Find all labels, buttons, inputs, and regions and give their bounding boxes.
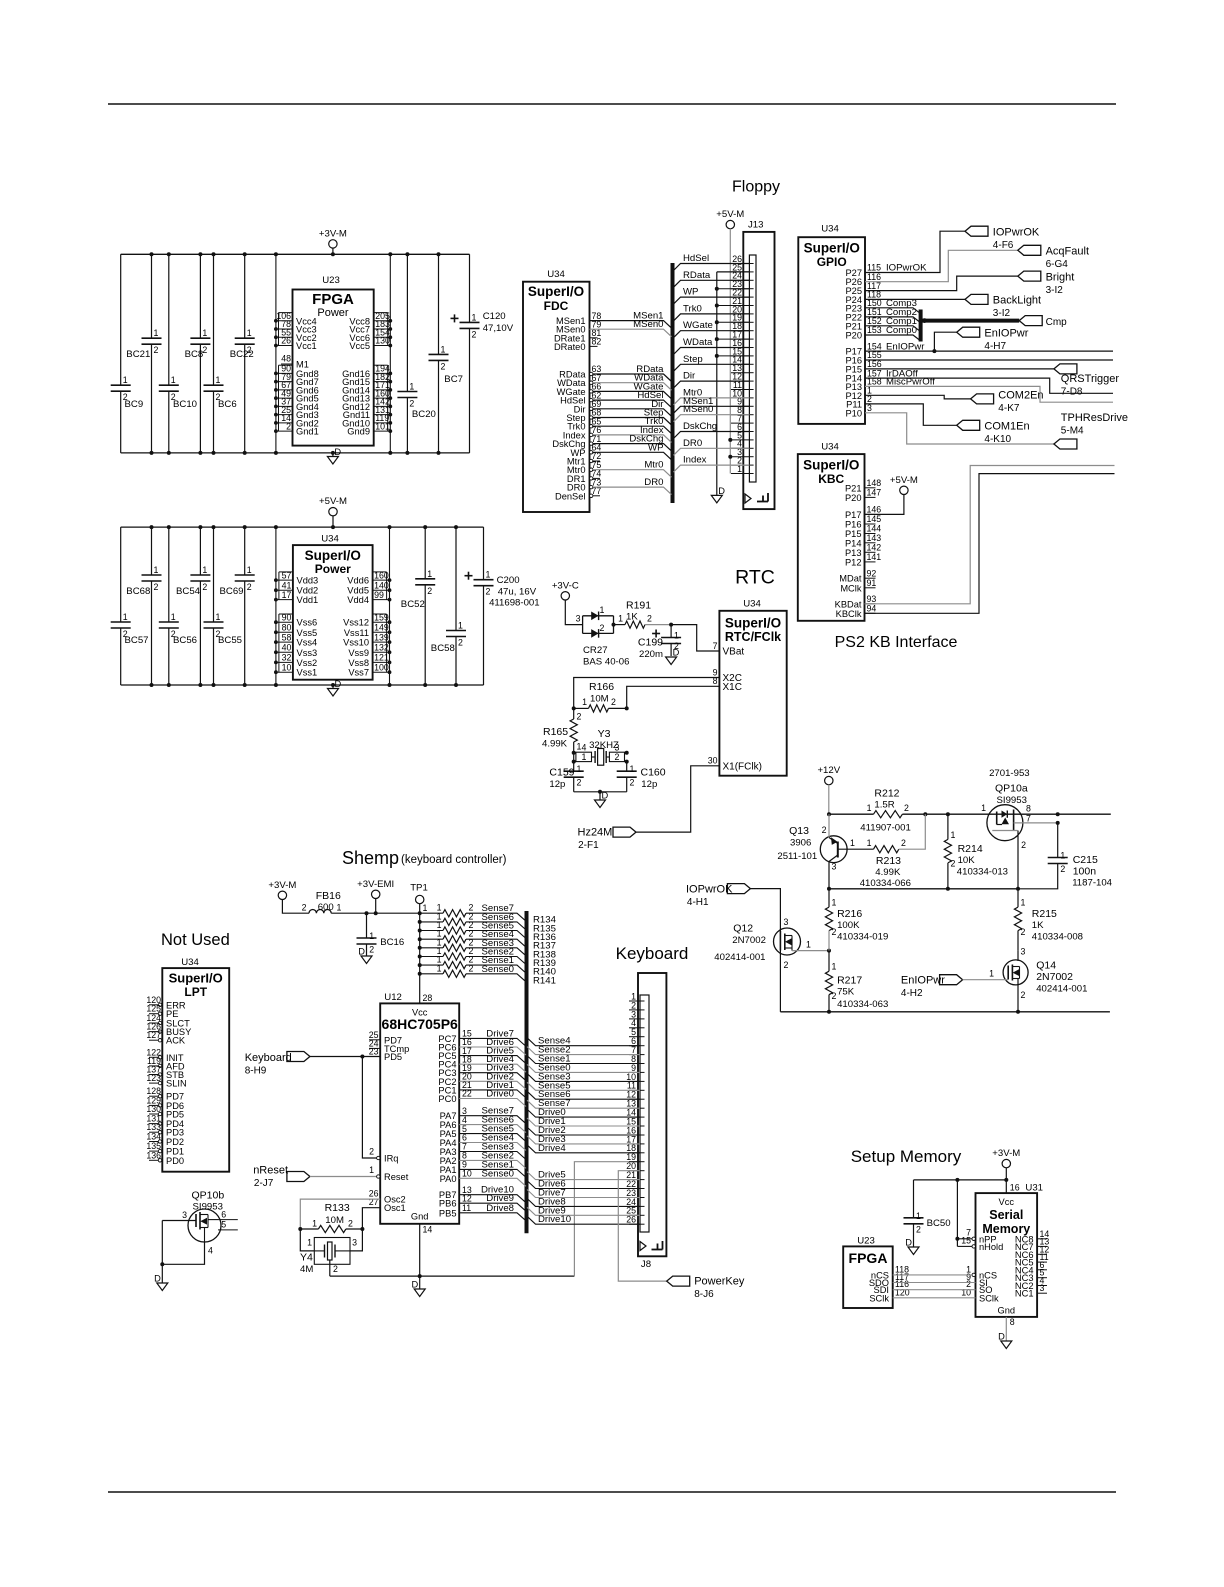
svg-text:QP10a: QP10a — [995, 783, 1028, 795]
wire power box right tie column — [389, 527, 391, 685]
svg-text:2: 2 — [615, 752, 620, 762]
svg-text:FB16: FB16 — [316, 890, 341, 902]
svg-text:1: 1 — [307, 1238, 312, 1248]
wire P25 to Bright flag — [865, 276, 1018, 291]
svg-text:4-H7: 4-H7 — [984, 341, 1006, 352]
svg-text:10M: 10M — [590, 694, 609, 705]
svg-text:12p: 12p — [641, 779, 657, 790]
flag Bright 3-I2 — [1018, 271, 1041, 281]
svg-text:411907-001: 411907-001 — [860, 823, 911, 834]
wire bus to J13 pin 12 Dir — [674, 381, 750, 388]
wire bus to J13 pin 16 WData — [674, 348, 750, 355]
wire FDC WP to bus — [593, 452, 672, 460]
svg-text:2: 2 — [369, 1147, 374, 1157]
svg-text:8: 8 — [1010, 1317, 1015, 1327]
svg-text:Vss4: Vss4 — [297, 638, 318, 648]
capacitor C215 100n 1187-104 — [1057, 823, 1059, 858]
svg-text:Power: Power — [315, 562, 351, 576]
svg-text:SuperI/O: SuperI/O — [804, 241, 860, 256]
svg-text:GPIO: GPIO — [817, 255, 847, 269]
svg-text:2: 2 — [611, 697, 616, 707]
svg-text:12: 12 — [462, 1193, 472, 1203]
wire bottom border rule — [108, 1491, 1116, 1493]
svg-text:D: D — [334, 447, 341, 457]
svg-text:P13: P13 — [845, 548, 862, 558]
svg-text:+3V-M: +3V-M — [992, 1148, 1020, 1159]
svg-text:8-H9: 8-H9 — [245, 1066, 267, 1077]
svg-text:WGate: WGate — [683, 320, 713, 331]
wire +5V-M top bus — [121, 526, 484, 528]
resistor R136 sense pullup Sense5 — [418, 929, 422, 933]
svg-text:C159: C159 — [549, 767, 574, 779]
svg-text:P10: P10 — [845, 408, 862, 418]
wire bus to J8 pin 17 Drive3 — [527, 1136, 640, 1144]
pin U12 Reset number 1 with bubble — [377, 1175, 380, 1178]
svg-text:R133: R133 — [325, 1202, 350, 1214]
node +5V-M power symbol — [329, 508, 337, 516]
crystal Y4 4M — [300, 1229, 314, 1251]
svg-text:10K: 10K — [958, 855, 976, 866]
wire FDC Dir to bus — [593, 409, 672, 417]
svg-text:1: 1 — [850, 838, 855, 848]
svg-text:139: 139 — [374, 632, 389, 642]
svg-text:1: 1 — [437, 963, 442, 973]
svg-text:BC8: BC8 — [185, 349, 204, 360]
svg-text:J8: J8 — [641, 1259, 651, 1270]
svg-text:WP: WP — [683, 287, 698, 298]
svg-text:100: 100 — [374, 662, 389, 672]
pins U12 PD7 TCmp PD5 numbers 25 24 23 — [369, 1039, 380, 1041]
svg-text:1: 1 — [951, 830, 956, 840]
svg-text:BC7: BC7 — [444, 374, 463, 385]
svg-text:3: 3 — [1021, 947, 1026, 957]
capacitor BC20 — [406, 254, 408, 391]
wire bus to J8 pin 22 Drive6 — [527, 1181, 640, 1189]
svg-text:Keyboard: Keyboard — [245, 1052, 292, 1064]
svg-text:SLIN: SLIN — [166, 1079, 187, 1089]
svg-text:7: 7 — [1026, 814, 1031, 824]
svg-text:Power: Power — [317, 307, 349, 319]
svg-text:2N7002: 2N7002 — [732, 935, 766, 946]
svg-text:U34: U34 — [821, 442, 839, 453]
pins U23 Vcc4-Vcc1 numbers 106 78 55 26 — [279, 312, 293, 314]
wire bus to J8 pin 8 Sense1 — [527, 1056, 640, 1064]
pins U34 LPT with bubbles — [149, 1004, 158, 1006]
svg-text:DR0: DR0 — [644, 477, 663, 488]
svg-text:130: 130 — [375, 336, 390, 346]
svg-text:1: 1 — [312, 1219, 317, 1229]
svg-text:Vcc: Vcc — [999, 1197, 1015, 1207]
svg-text:BC50: BC50 — [927, 1218, 951, 1229]
pins U34 Vdd3-Vdd1 numbers 57 41 17 — [279, 571, 293, 573]
svg-text:FPGA: FPGA — [849, 1250, 888, 1266]
svg-text:4-H2: 4-H2 — [901, 988, 923, 999]
svg-text:2: 2 — [577, 712, 582, 722]
svg-text:1: 1 — [472, 312, 477, 322]
capacitor BC54 — [199, 527, 201, 575]
wire FDC Index to bus — [593, 435, 672, 443]
svg-text:120: 120 — [895, 1287, 910, 1297]
svg-text:Vss10: Vss10 — [343, 638, 369, 648]
wire bus to J13 pin 2 Index — [674, 465, 750, 472]
wire FPGA to Serial Memory nets — [893, 1274, 972, 1276]
svg-text:C200: C200 — [497, 575, 520, 586]
capacitor BC58 — [455, 527, 457, 630]
svg-text:127: 127 — [146, 1030, 161, 1040]
svg-text:VBat: VBat — [723, 647, 745, 658]
svg-text:1: 1 — [832, 962, 837, 972]
svg-text:32KHZ: 32KHZ — [589, 740, 619, 751]
diode CR27 BAS 40-06 dual — [582, 616, 584, 634]
flag Cmp — [1019, 316, 1042, 326]
svg-text:BackLight: BackLight — [993, 295, 1041, 307]
flag PowerKey 8-J6 — [667, 1276, 690, 1286]
svg-text:6-G4: 6-G4 — [1046, 259, 1069, 270]
svg-text:D: D — [673, 648, 680, 658]
svg-text:Drive10: Drive10 — [538, 1214, 571, 1225]
svg-text:PC0: PC0 — [438, 1094, 456, 1104]
svg-text:Gnd9: Gnd9 — [347, 427, 370, 437]
svg-text:Vss5: Vss5 — [297, 628, 318, 638]
svg-text:U34: U34 — [821, 224, 839, 235]
svg-text:8: 8 — [1026, 804, 1031, 814]
svg-text:IRq: IRq — [384, 1154, 398, 1164]
svg-text:R166: R166 — [589, 681, 614, 693]
wire mid rail — [829, 888, 1018, 890]
svg-text:SI9953: SI9953 — [997, 795, 1027, 806]
svg-text:Q14: Q14 — [1036, 960, 1056, 972]
svg-text:4-K10: 4-K10 — [984, 434, 1011, 445]
resistor R165 4.99K — [573, 708, 575, 719]
svg-text:SuperI/O: SuperI/O — [528, 284, 584, 299]
svg-text:Vdd1: Vdd1 — [297, 595, 319, 605]
svg-text:PB5: PB5 — [439, 1208, 457, 1218]
svg-text:Serial: Serial — [989, 1208, 1023, 1222]
svg-text:2-F1: 2-F1 — [578, 840, 599, 851]
svg-text:P20: P20 — [845, 331, 862, 341]
svg-text:QRSTrigger: QRSTrigger — [1061, 373, 1120, 385]
IC U23 FPGA Power box — [293, 290, 374, 446]
svg-text:Vss1: Vss1 — [297, 668, 318, 678]
wire bus to J13 pin 10 Mtr0 — [674, 398, 750, 405]
svg-text:FDC: FDC — [544, 299, 569, 313]
wire P11 to COM1En flag — [865, 404, 957, 425]
flag BackLight 3-I2 — [965, 294, 988, 304]
svg-text:+5V-M: +5V-M — [890, 475, 918, 486]
wire branch to EnIOPwr flag — [934, 332, 956, 351]
svg-text:57: 57 — [282, 570, 292, 580]
svg-text:C120: C120 — [483, 311, 506, 322]
svg-text:1: 1 — [369, 931, 374, 941]
svg-text:C199: C199 — [638, 637, 663, 649]
svg-text:BC54: BC54 — [176, 586, 201, 597]
wire X1C to crystal right node — [627, 686, 720, 708]
node +3V-M power symbol at Shemp — [278, 891, 286, 899]
flag COM2En 4-K7 — [971, 394, 994, 404]
node +3V-M power symbol — [329, 240, 337, 248]
svg-text:136: 136 — [146, 1150, 161, 1160]
flag COM1En 4-K10 — [957, 420, 980, 430]
svg-text:BC57: BC57 — [125, 635, 149, 646]
svg-text:2: 2 — [286, 421, 291, 431]
svg-text:BC10: BC10 — [173, 399, 197, 410]
svg-text:2: 2 — [441, 361, 446, 371]
svg-text:+12V: +12V — [817, 765, 840, 776]
svg-text:D: D — [154, 1274, 161, 1284]
svg-text:Drive4: Drive4 — [538, 1143, 566, 1154]
svg-text:1: 1 — [981, 803, 986, 813]
svg-text:1: 1 — [1060, 851, 1065, 861]
svg-text:IOPwrOK: IOPwrOK — [993, 227, 1040, 239]
svg-text:Gnd: Gnd — [411, 1212, 429, 1222]
capacitor BC6 — [213, 254, 215, 385]
wire FDC Trk0 to bus — [593, 426, 672, 434]
svg-text:D: D — [602, 791, 609, 801]
capacitor BC8 — [199, 254, 201, 338]
svg-text:Step: Step — [683, 354, 703, 365]
svg-text:U23: U23 — [857, 1236, 875, 1247]
svg-text:Reset: Reset — [384, 1172, 409, 1182]
svg-text:MDat: MDat — [839, 574, 862, 584]
resistor R133 10M — [300, 1228, 318, 1230]
svg-text:1: 1 — [486, 570, 491, 580]
wire P16 net to page right — [865, 359, 1113, 361]
svg-text:SuperI/O: SuperI/O — [169, 971, 223, 986]
wire bus to J8 pin 13 Sense7 — [527, 1100, 640, 1108]
svg-text:U34: U34 — [743, 599, 761, 610]
svg-text:NC1: NC1 — [1015, 1289, 1034, 1299]
svg-text:DskChg: DskChg — [683, 421, 717, 432]
svg-text:BC52: BC52 — [401, 599, 425, 610]
wire ground bottom rail of power section — [121, 684, 484, 686]
svg-text:QP10b: QP10b — [192, 1190, 225, 1202]
svg-text:nReset: nReset — [253, 1165, 288, 1177]
svg-text:1: 1 — [171, 375, 176, 385]
svg-text:1: 1 — [577, 764, 582, 774]
ground D symbol at C199 — [666, 657, 677, 665]
svg-text:1: 1 — [154, 565, 159, 575]
capacitor C200 47u 16V 411698-001 — [483, 527, 485, 580]
svg-text:+3V-M: +3V-M — [268, 880, 296, 891]
svg-text:3-I2: 3-I2 — [993, 308, 1011, 319]
svg-text:1: 1 — [202, 565, 207, 575]
pin U23 M1 number 48 — [281, 363, 293, 365]
svg-text:99: 99 — [374, 590, 384, 600]
svg-text:2: 2 — [154, 582, 159, 592]
pin U12 Gnd number 14 and ground symbol — [419, 1224, 421, 1276]
svg-text:R213: R213 — [876, 855, 901, 867]
svg-text:Drive0: Drive0 — [486, 1089, 514, 1100]
wire +3V-M to Serial Memory Vcc — [1005, 1168, 1007, 1193]
svg-text:4-H1: 4-H1 — [687, 897, 709, 908]
svg-text:FPGA: FPGA — [312, 291, 354, 308]
svg-text:Vcc5: Vcc5 — [349, 341, 370, 351]
svg-text:100K: 100K — [837, 920, 860, 931]
svg-text:2: 2 — [904, 803, 909, 813]
svg-text:1: 1 — [441, 344, 446, 354]
svg-text:1: 1 — [369, 1165, 374, 1175]
wire Osc2 to oscillator left node — [300, 1199, 380, 1229]
svg-text:PB6: PB6 — [439, 1199, 457, 1209]
svg-text:148: 148 — [867, 478, 882, 488]
svg-text:RData: RData — [683, 270, 711, 281]
svg-text:D: D — [411, 1280, 418, 1290]
svg-text:BC56: BC56 — [173, 635, 197, 646]
wire bus to J8 pin 25 Drive9 — [527, 1207, 640, 1215]
svg-text:2: 2 — [333, 1264, 338, 1274]
svg-text:100n: 100n — [1073, 866, 1097, 878]
svg-text:PowerKey: PowerKey — [694, 1276, 745, 1288]
ground D symbol at crystal — [599, 792, 601, 800]
ground D symbol at QP10b — [157, 1283, 168, 1291]
bus thick floppy signal bus — [671, 263, 675, 503]
svg-text:X1(FClk): X1(FClk) — [723, 761, 762, 772]
svg-text:26: 26 — [732, 254, 742, 264]
svg-text:123: 123 — [146, 1073, 161, 1083]
wire P14 IrDAOff to page right — [865, 378, 1113, 393]
svg-text:2: 2 — [1060, 864, 1065, 874]
svg-text:4-K7: 4-K7 — [998, 403, 1020, 414]
transistor Q13 3906 2511-101 PNP — [820, 836, 847, 863]
wire U31 Gnd lead and ground symbol number 8 — [1005, 1317, 1007, 1341]
svg-text:Y4: Y4 — [300, 1252, 313, 1264]
wire J8 pin 20 to PowerKey — [618, 1171, 666, 1281]
svg-text:1: 1 — [247, 565, 252, 575]
svg-text:Vcc1: Vcc1 — [296, 341, 317, 351]
svg-text:16: 16 — [1010, 1183, 1020, 1193]
wire FB16 to TP1 column — [331, 912, 443, 914]
svg-text:1: 1 — [247, 328, 252, 338]
node +3V-M power symbol at Setup Memory — [1002, 1159, 1010, 1167]
wire bus to J8 pin 9 Sense0 — [527, 1064, 640, 1072]
svg-text:3: 3 — [352, 1238, 357, 1248]
wire bus to J8 pin 7 Sense2 — [527, 1047, 640, 1055]
svg-text:4.99K: 4.99K — [542, 739, 568, 750]
wire KBClk net — [865, 474, 1115, 614]
wire P12 to COM2En flag — [865, 395, 971, 399]
svg-text:Vss8: Vss8 — [348, 658, 369, 668]
node +5V-M power symbol at KBC — [900, 486, 908, 494]
resistor R140 sense pullup Sense1 — [418, 963, 422, 967]
wire bus to J13 pin 14 Step — [674, 364, 750, 371]
svg-text:2: 2 — [901, 838, 906, 848]
svg-text:2: 2 — [916, 1224, 921, 1234]
wire FDC DskChg to bus — [593, 444, 672, 452]
svg-text:101: 101 — [375, 421, 390, 431]
svg-text:PA0: PA0 — [440, 1174, 457, 1184]
svg-text:1: 1 — [123, 612, 128, 622]
connector J13 box — [743, 232, 774, 509]
svg-text:U31: U31 — [1025, 1183, 1043, 1194]
svg-text:68HC705P6: 68HC705P6 — [382, 1016, 458, 1032]
svg-text:12p: 12p — [549, 779, 565, 790]
wire crystal ground rail — [574, 791, 627, 793]
connector J13 manufacturer F mark — [757, 501, 768, 503]
svg-text:Not Used: Not Used — [161, 931, 230, 949]
svg-text:(keyboard controller): (keyboard controller) — [401, 854, 507, 866]
svg-text:SuperI/O: SuperI/O — [803, 458, 859, 473]
wire branch to nPP nHold — [956, 1180, 958, 1247]
wire bus to J8 pin 24 Drive8 — [527, 1198, 640, 1206]
IC U34 SuperI/O FDC box — [523, 282, 590, 512]
svg-text:134: 134 — [146, 1132, 161, 1142]
svg-text:Keyboard: Keyboard — [616, 944, 689, 963]
IC U34 SuperI/O Power box — [293, 545, 373, 680]
flag IOPwrOK 4-F6 — [965, 226, 988, 236]
svg-text:410334-019: 410334-019 — [837, 932, 888, 943]
svg-text:1.5R: 1.5R — [874, 800, 894, 811]
svg-text:220m: 220m — [639, 649, 663, 660]
svg-text:P21: P21 — [845, 483, 862, 493]
svg-text:BC6: BC6 — [218, 399, 237, 410]
wire bus to J8 pin 10 Sense3 — [527, 1073, 640, 1081]
resistor R138 sense pullup Sense3 — [418, 946, 422, 950]
node +12V power symbol — [825, 776, 833, 784]
svg-text:48: 48 — [281, 354, 291, 364]
svg-text:R215: R215 — [1032, 908, 1057, 920]
svg-text:U12: U12 — [384, 992, 402, 1003]
wire bottom rail of power switch section — [780, 1011, 1110, 1013]
svg-text:WP: WP — [648, 442, 663, 453]
svg-text:132: 132 — [374, 643, 389, 653]
svg-text:2: 2 — [1021, 927, 1026, 937]
resistor R141 sense pullup Sense0 — [418, 972, 422, 976]
capacitor C160 12p — [626, 762, 628, 772]
svg-text:402414-001: 402414-001 — [714, 952, 765, 963]
svg-text:2: 2 — [154, 345, 159, 355]
svg-text:80: 80 — [282, 623, 292, 633]
svg-text:2: 2 — [369, 945, 374, 955]
svg-text:DRate0: DRate0 — [554, 342, 586, 352]
capacitor BC55 — [213, 527, 215, 622]
svg-text:P14: P14 — [845, 538, 862, 548]
svg-text:1: 1 — [1021, 898, 1026, 908]
svg-text:10: 10 — [282, 662, 292, 672]
svg-text:BC21: BC21 — [126, 349, 150, 360]
wire FDC WData to bus — [593, 383, 672, 391]
wire bus to J13 pin 18 WGate — [674, 331, 750, 338]
svg-text:402414-001: 402414-001 — [1036, 984, 1087, 995]
svg-text:1: 1 — [202, 328, 207, 338]
pins U31 nPP nHold with bubbles numbers 7 15 — [972, 1237, 975, 1240]
wire P13 MiscPwrOff to page right — [865, 386, 1113, 402]
svg-text:146: 146 — [867, 505, 882, 515]
capacitor C199 220m — [670, 625, 672, 638]
wire bus to J8 pin 16 Drive2 — [527, 1127, 640, 1135]
svg-text:MSen0: MSen0 — [683, 404, 713, 415]
svg-text:U23: U23 — [322, 275, 340, 286]
svg-text:2: 2 — [1021, 990, 1026, 1000]
svg-text:11: 11 — [462, 1203, 471, 1213]
node +3V-C power symbol — [561, 592, 569, 600]
IC U31 Serial Memory box — [976, 1193, 1038, 1317]
resistor R212 1.5R 411907-001 — [874, 811, 903, 818]
ferrite bead FB16 600 — [309, 910, 331, 914]
svg-text:1: 1 — [123, 375, 128, 385]
wire +3V-C to CR27 — [565, 600, 582, 625]
wire IOPwrOK to Q12 gate — [750, 889, 780, 931]
svg-text:MClk: MClk — [840, 583, 862, 593]
svg-text:J13: J13 — [748, 220, 763, 231]
resistor R135 sense pullup Sense6 — [418, 920, 422, 924]
svg-text:R214: R214 — [958, 843, 983, 855]
svg-text:5-M4: 5-M4 — [1061, 426, 1084, 437]
svg-text:1: 1 — [427, 569, 432, 579]
wire bus to J8 pin 6 Sense4 — [527, 1038, 640, 1046]
node +3V-EMI power symbol — [372, 890, 380, 898]
svg-text:SuperI/O: SuperI/O — [725, 616, 781, 631]
svg-text:1: 1 — [582, 697, 587, 707]
